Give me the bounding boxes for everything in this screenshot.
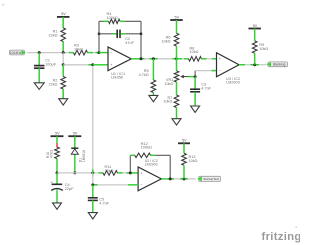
- resistor R2 22k&#937;: [49, 77, 66, 90]
- capacitor C3 4.7nF pin top: [194, 77, 196, 89]
- resistor R6 pin bottom: [176, 46, 178, 59]
- node R13 junction: [183, 177, 186, 180]
- wire feedback right: [140, 21, 142, 59]
- wire wiper up: [194, 71, 196, 77]
- wire to U3 minus: [195, 70, 211, 72]
- op-amp U3 / IC2 LM2903: [217, 53, 240, 85]
- svg-text:5V: 5V: [175, 15, 180, 19]
- power 5V (R9): [248, 24, 261, 29]
- fritzing watermark: [262, 227, 302, 243]
- node C5 junction: [91, 183, 94, 186]
- resistor R8 10k&#937;: [189, 46, 202, 61]
- op-amp U1 plus pin: [104, 64, 109, 66]
- resistor R13 pin bottom: [183, 165, 185, 179]
- svg-text:100µF: 100µF: [45, 63, 57, 67]
- wire R12 right vertical: [169, 155, 171, 179]
- resistor R1 pin bottom: [62, 42, 64, 53]
- resistor R7 10k&#937;: [163, 95, 178, 108]
- capacitor C5 4.7nF pin top: [92, 185, 94, 198]
- svg-text:StartupTest: StartupTest: [203, 177, 219, 181]
- capacitor C2 pin right: [121, 33, 126, 35]
- node D1 junction: [73, 171, 76, 174]
- svg-text:4.7kΩ: 4.7kΩ: [139, 73, 149, 77]
- svg-text:5V: 5V: [182, 139, 187, 143]
- wire plus branch green: [93, 184, 98, 186]
- capacitor C3 pin bottom: [194, 92, 196, 106]
- ground (R7): [172, 119, 181, 125]
- resistor R12 100k&#937;: [135, 142, 152, 158]
- wire plus input branch: [93, 173, 128, 185]
- svg-text:+: +: [219, 57, 221, 61]
- wire bias row green right: [93, 64, 104, 66]
- node bias junction: [62, 63, 65, 66]
- resistor R5 pin bottom: [152, 93, 154, 96]
- wire output green 1: [137, 58, 145, 60]
- op-amp U2 / IC2 LM2903: [138, 159, 161, 191]
- svg-text:10kΩ: 10kΩ: [190, 50, 199, 54]
- resistor R6 10k&#937; pin top: [176, 20, 178, 33]
- wire R4 row right: [125, 20, 141, 22]
- capacitor C4 22&#181;F: [50, 179, 74, 191]
- op-amp U3 output pin: [239, 64, 245, 66]
- svg-text:5V: 5V: [61, 12, 66, 16]
- op-amp U2 output pin: [161, 178, 167, 180]
- node R5 tap: [152, 57, 155, 60]
- diode D1 pin through: [74, 136, 76, 173]
- wire U3 out green: [251, 64, 260, 66]
- op-amp U2 minus pin: [133, 172, 138, 174]
- wire U2 out green 2: [180, 178, 187, 180]
- wire output green 3: [173, 58, 177, 60]
- wire R12 left vertical: [129, 155, 131, 171]
- svg-text:22kΩ: 22kΩ: [49, 34, 58, 38]
- capacitor C1 100&#181;F pin top: [38, 53, 40, 66]
- wire R12 row right: [155, 154, 170, 156]
- svg-text:10kΩ: 10kΩ: [164, 82, 173, 86]
- power 5V (R10): [51, 132, 64, 137]
- wire U3 output: [245, 64, 266, 66]
- svg-text:−: −: [219, 69, 221, 73]
- resistor R4 100k&#937;: [107, 12, 121, 23]
- op-amp U1 output pin: [131, 58, 137, 60]
- wire long vertical: [92, 66, 94, 173]
- node rail-vertical junction: [91, 169, 94, 176]
- wire R1 node down: [62, 53, 64, 65]
- resistor R3 10k&#937;: [74, 44, 88, 55]
- node C1 junction: [38, 51, 41, 54]
- diode D1 1N5818: [71, 148, 86, 162]
- net label Blanking (output): [266, 62, 287, 67]
- capacitor C4 22&#181;F pin top: [56, 173, 58, 184]
- net label 1024Hz (input): [10, 50, 26, 55]
- resistor R13 10k&#937; pin top: [183, 143, 185, 153]
- resistor R9 10k&#937; pin top: [254, 29, 256, 41]
- svg-text:fritzing: fritzing: [262, 231, 301, 243]
- svg-text:5V: 5V: [55, 132, 60, 136]
- wire bottom rail: [57, 172, 99, 174]
- op-amp U1 / IC1 LM358: [108, 47, 131, 80]
- power pin green (R10): [56, 136, 58, 143]
- power 5V (D1): [68, 132, 81, 137]
- resistor R8 pin left wire: [177, 58, 189, 60]
- svg-text:10kΩ: 10kΩ: [259, 47, 268, 51]
- node wiper-C3 junction: [194, 75, 197, 78]
- resistor R12 pin left: [130, 154, 134, 156]
- capacitor C1 100&#181;F: [34, 59, 57, 69]
- capacitor C5 4.7nF: [88, 198, 110, 206]
- svg-text:10kΩ: 10kΩ: [74, 48, 83, 52]
- node C2 right joint: [140, 33, 142, 35]
- wire input row: [27, 52, 69, 54]
- wire C2 row right: [126, 33, 141, 35]
- net label StartupTest: [197, 176, 220, 181]
- resistor R10 47k&#937;: [46, 147, 59, 159]
- svg-text:10kΩ: 10kΩ: [189, 159, 198, 163]
- node R9-output junction: [253, 63, 256, 66]
- resistor R6 10k&#937;: [162, 33, 179, 46]
- ground (C4): [53, 203, 62, 209]
- resistor R5 4.7k&#937;: [139, 69, 156, 92]
- node R11-U2 junction: [129, 171, 132, 174]
- resistor R10 pin bottom: [56, 159, 58, 173]
- wire C2 row left: [99, 33, 113, 35]
- wire rail green at vert: [168, 0, 170, 1]
- resistor R11 pin right: [118, 172, 123, 174]
- node C2 left joint: [98, 33, 100, 35]
- ground (C3): [191, 106, 200, 112]
- svg-text:22µF: 22µF: [65, 187, 74, 191]
- svg-text:LM2903: LM2903: [226, 81, 240, 85]
- svg-text:47kΩ: 47kΩ: [50, 150, 54, 159]
- svg-text:47nF: 47nF: [125, 41, 134, 45]
- svg-text:10kΩ: 10kΩ: [162, 40, 171, 44]
- ground (C5): [88, 213, 97, 219]
- resistor R1 22k&#937; pin top: [62, 17, 64, 29]
- node R1-input junction: [62, 51, 65, 54]
- resistor R11 pin left: [99, 172, 104, 174]
- svg-text:5V: 5V: [73, 132, 78, 136]
- resistor R5 4.7k&#937; pin top: [152, 59, 154, 80]
- ground (C1): [34, 83, 44, 90]
- resistor R3 pin right: [88, 52, 94, 54]
- ground (R5): [149, 95, 158, 101]
- wire bias row green left: [88, 64, 93, 66]
- capacitor C2 pin left: [113, 33, 118, 35]
- corner artifact: [2, 4, 4, 6]
- resistor R11 10k&#937;: [103, 165, 118, 175]
- resistor R9 pin bottom: [254, 53, 256, 65]
- node rail2 junction: [175, 57, 178, 60]
- node feedback-output: [140, 57, 143, 60]
- wire feedback left: [98, 21, 100, 51]
- resistor R8 pin right: [202, 58, 217, 60]
- svg-text:5V: 5V: [253, 24, 258, 28]
- resistor R3 10k&#937; pin left: [69, 52, 74, 54]
- svg-text:10kΩ: 10kΩ: [105, 169, 114, 173]
- resistor R1 22k&#937;: [49, 28, 66, 42]
- wire U2 out green 1: [167, 178, 174, 180]
- potentiometer VR1 10k&#937; pin top: [176, 59, 178, 71]
- resistor R2 22k&#937; pin top: [62, 65, 64, 77]
- svg-text:1024Hz: 1024Hz: [10, 51, 22, 55]
- resistor R4 pin left: [104, 20, 109, 22]
- svg-text:LM358: LM358: [111, 76, 123, 80]
- svg-text:LM2903: LM2903: [145, 163, 158, 167]
- svg-text:Blanking: Blanking: [273, 63, 286, 67]
- wire U2 output: [167, 178, 196, 180]
- wire R4 row left: [99, 20, 104, 22]
- svg-text:1N5818: 1N5818: [82, 150, 86, 162]
- resistor R12 pin right: [151, 154, 156, 156]
- resistor R2 pin bottom: [62, 89, 64, 99]
- wire wiper green: [189, 76, 196, 78]
- resistor R9 10k&#937;: [252, 41, 268, 53]
- potentiometer VR1 10k&#937;: [164, 71, 188, 86]
- svg-text:−: −: [110, 51, 112, 55]
- potentiometer VR1 pin bottom: [176, 82, 178, 95]
- capacitor C3 4.7nF: [190, 82, 212, 91]
- power 5V (R13): [178, 139, 190, 144]
- power 5V (R1): [57, 12, 69, 17]
- node U1 inverting input: [98, 51, 101, 54]
- op-amp U2 plus pin: [128, 184, 138, 186]
- op-amp U1 minus pin: [99, 52, 108, 54]
- svg-text:10kΩ: 10kΩ: [163, 100, 172, 104]
- capacitor C5 pin bottom: [92, 200, 94, 212]
- svg-text:4.7nF: 4.7nF: [201, 86, 211, 90]
- resistor R13 10k&#937;: [182, 153, 198, 165]
- svg-text:−: −: [141, 183, 143, 187]
- svg-text:+: +: [110, 63, 112, 67]
- svg-text:100kΩ: 100kΩ: [107, 16, 118, 20]
- wire R3 to node: [93, 52, 96, 54]
- ground (R2): [59, 99, 68, 105]
- resistor R4 pin right: [120, 20, 125, 22]
- svg-text:22kΩ: 22kΩ: [49, 83, 58, 87]
- power 5V (R6): [170, 15, 183, 20]
- wire bias row: [63, 64, 88, 66]
- capacitor C1 pin bottom: [38, 68, 40, 83]
- node feedback2 junction: [169, 177, 172, 180]
- resistor R7 pin bottom: [176, 108, 178, 119]
- capacitor C2 47nF: [117, 30, 134, 46]
- wire R11 to U2: [123, 172, 134, 174]
- op-amp U3 minus pin: [212, 70, 217, 72]
- svg-text:+: +: [141, 171, 143, 175]
- svg-text:100kΩ: 100kΩ: [141, 146, 152, 150]
- node R10 junction: [56, 171, 59, 174]
- wire U1 output a: [137, 58, 177, 60]
- wire node green left: [96, 52, 100, 54]
- svg-text:4.7nF: 4.7nF: [99, 202, 109, 206]
- resistor R10 pin top red: [56, 143, 58, 148]
- wire output green 2: [150, 58, 158, 60]
- node vertical tap: [91, 63, 94, 66]
- capacitor C4 pin bottom: [56, 189, 58, 203]
